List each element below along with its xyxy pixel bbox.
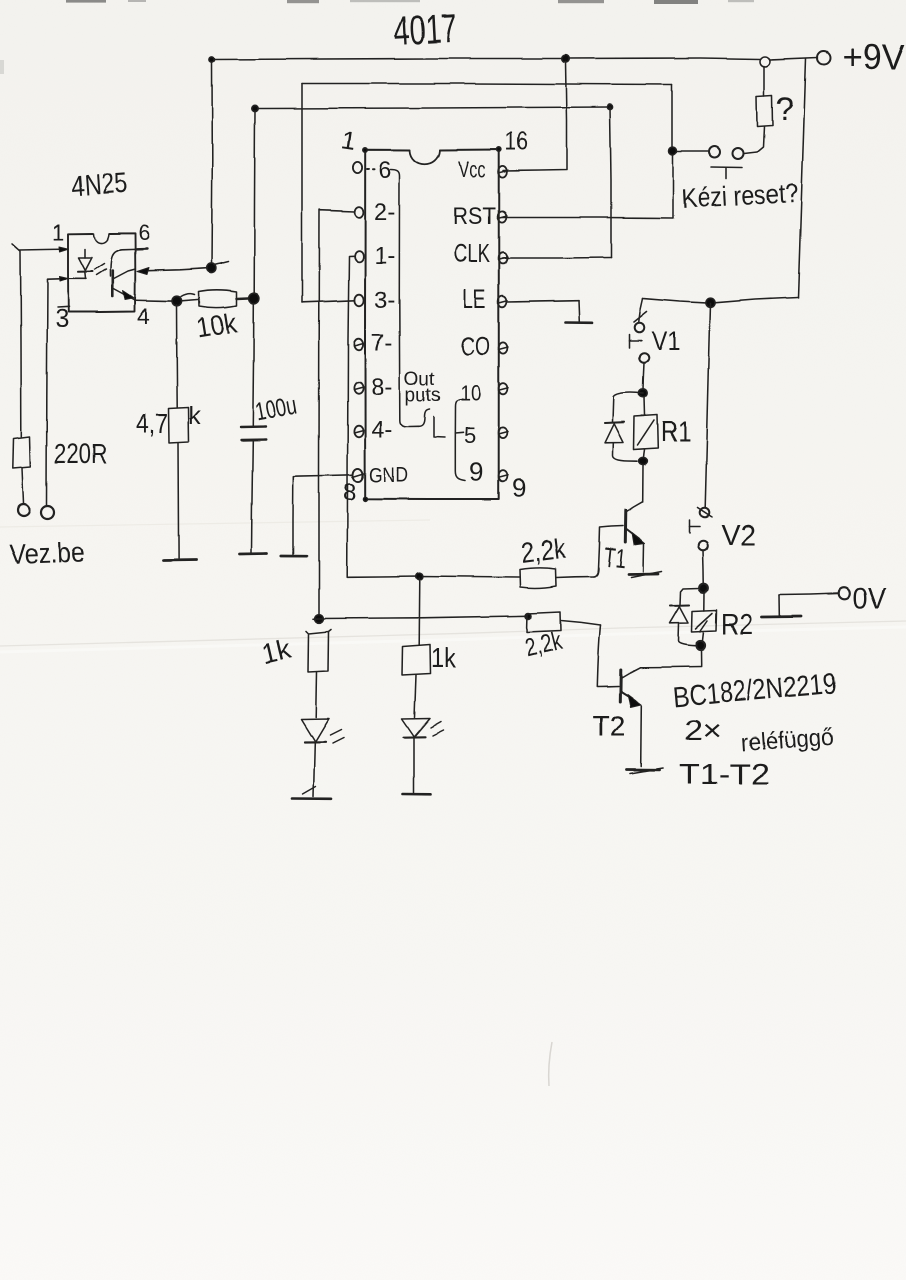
wire pin1 output column — [347, 256, 519, 580]
node relay R1 top — [639, 389, 647, 397]
wire clock node riser — [253, 111, 256, 293]
outputs bracket left — [391, 170, 446, 438]
svg-text:10: 10 — [460, 381, 481, 406]
wire 4,7k riser — [176, 305, 179, 408]
opto pin3 lead — [48, 277, 87, 308]
pin Vcc circle — [498, 166, 508, 177]
wire T2 base riser — [597, 625, 618, 687]
svg-text:R1: R1 — [661, 416, 691, 448]
resistor R4 220R — [13, 437, 31, 504]
svg-text:GND: GND — [369, 464, 408, 487]
wire LE to ground — [507, 300, 579, 301]
bracket pins 10-5-9 — [455, 400, 465, 481]
relay coil R1 — [634, 398, 658, 457]
svg-text:RST: RST — [453, 203, 496, 230]
svg-text:LE: LE — [462, 284, 486, 314]
ground at T2 — [627, 768, 664, 774]
wire +9V supply rail — [209, 57, 818, 62]
svg-text:?: ? — [776, 91, 794, 127]
opto phototransistor — [110, 249, 147, 300]
opto internal LED — [78, 249, 93, 279]
switch V2 — [689, 508, 712, 584]
wire pin3 to reset net — [302, 301, 355, 303]
svg-text:Vcc: Vcc — [458, 157, 485, 182]
resistor R8 2,2k lower — [527, 612, 601, 632]
node relay R1 bottom — [639, 457, 648, 502]
node relay R2 top — [699, 584, 708, 593]
svg-text:4N25: 4N25 — [70, 167, 128, 203]
pin CLK circle — [498, 252, 508, 263]
svg-text:4017: 4017 — [393, 7, 458, 54]
ground at LE — [566, 300, 593, 322]
pin 2 circle (out 2) — [355, 207, 364, 218]
paper crease middle — [0, 621, 906, 646]
pin 9 circle — [499, 471, 509, 482]
transistor T2 — [620, 667, 642, 766]
svg-text:8-: 8- — [371, 374, 392, 401]
ground at D2 — [403, 792, 431, 795]
scan artifacts top edge — [0, 0, 754, 74]
pin 1 circle (out 1) — [355, 251, 364, 262]
svg-text:V1: V1 — [652, 326, 680, 356]
svg-text:6: 6 — [138, 220, 150, 245]
svg-text:2-: 2- — [374, 199, 395, 226]
paper crease upper-left — [0, 520, 430, 527]
flyback diode of R2 — [670, 589, 700, 646]
wire opto pin3 drop — [47, 280, 48, 506]
pin CO circle — [499, 342, 509, 353]
flyback diode of R1 — [605, 393, 644, 462]
pin GND circle — [353, 468, 365, 481]
svg-text:3: 3 — [55, 305, 69, 333]
svg-text:V2: V2 — [721, 520, 756, 552]
wire T1 base riser — [594, 526, 623, 577]
pin LE circle — [498, 296, 508, 307]
svg-text:5: 5 — [464, 423, 476, 448]
svg-text:Vez.be: Vez.be — [9, 536, 85, 570]
svg-text:T1: T1 — [602, 542, 627, 574]
LED D2 — [402, 718, 444, 792]
switch V1 — [629, 299, 649, 391]
wire +9V left drop to opto collector — [207, 62, 228, 273]
wire pin2 output column — [319, 210, 355, 617]
resistor R5 1k — [306, 630, 331, 718]
node junction Vcc to rail — [562, 55, 570, 63]
pin 10 circle — [499, 383, 509, 394]
LED D1 — [302, 719, 344, 797]
resistor ? (reset pull) — [744, 66, 773, 154]
svg-text:9: 9 — [469, 457, 483, 487]
pin 3 circle (out 3) — [354, 295, 363, 307]
ground at D1 — [293, 787, 332, 799]
svg-text:16: 16 — [505, 128, 528, 156]
svg-text:Kézi reset?: Kézi reset? — [681, 178, 799, 214]
wire rail2 reset net (pin3 / RST / switch) — [302, 84, 672, 304]
relay coil R2 — [692, 593, 717, 641]
capacitor C1 100u — [241, 303, 266, 553]
IC U1 4017 body — [363, 147, 501, 501]
node tap for reset resistor — [760, 57, 770, 67]
svg-text:9: 9 — [512, 473, 526, 503]
ground at GND pin — [281, 555, 307, 558]
svg-text:6: 6 — [378, 157, 391, 184]
svg-text:1k: 1k — [431, 642, 457, 673]
svg-text:T1-T2: T1-T2 — [679, 759, 770, 791]
pin 6 circle (out 6) — [353, 162, 374, 173]
wire RST riser — [502, 147, 677, 218]
optocoupler U2 4N25 body — [68, 233, 135, 312]
svg-text:4-: 4- — [371, 416, 392, 443]
wire opto emitter to 10k — [135, 294, 198, 306]
opto light arrows — [95, 264, 107, 276]
svg-text:+9V: +9V — [842, 38, 906, 77]
svg-text:1-: 1- — [374, 243, 395, 270]
pin RST circle — [498, 211, 508, 222]
wire 1k2 riser from pin1 node — [418, 578, 421, 645]
wire relay feed distribution — [643, 298, 798, 308]
wire 220R drop (pin1 of opto) — [20, 251, 23, 437]
ground at 4,7k — [164, 559, 197, 562]
resistor R7 2,2k upper — [520, 568, 594, 588]
node pin2 column to 1k and 2,2k — [315, 614, 324, 623]
svg-text:puts: puts — [405, 385, 441, 406]
svg-text:k: k — [188, 402, 201, 430]
resistor 10k — [199, 290, 259, 308]
terminal +9V — [818, 52, 831, 65]
ground at 100u — [240, 552, 267, 555]
svg-text:0V: 0V — [853, 583, 887, 615]
pin 4 circle (out 4) — [354, 425, 364, 437]
resistor R6 1k — [402, 645, 431, 718]
svg-text:2×: 2× — [684, 715, 722, 747]
terminal input b — [41, 506, 54, 519]
switch Kézi reset — [677, 147, 744, 180]
wire GND pin — [293, 475, 353, 555]
svg-text:7-: 7- — [371, 330, 392, 357]
svg-text:220R: 220R — [54, 438, 107, 469]
terminal input a — [18, 505, 30, 517]
node relay R2 bottom — [696, 640, 705, 665]
pin 7 circle (out 7) — [354, 339, 364, 351]
transistor T1 — [625, 502, 644, 572]
wire Vcc to rail — [503, 62, 567, 171]
svg-text:2,2k: 2,2k — [519, 533, 568, 569]
svg-text:1: 1 — [52, 220, 64, 245]
opto pin1 lead — [13, 244, 69, 252]
wire R2 to T2 collector — [640, 666, 701, 669]
wire rail3 clock net — [252, 104, 613, 258]
terminal 0V with ground — [762, 588, 851, 617]
resistor R3 4,7k — [169, 408, 189, 559]
svg-text:R2: R2 — [721, 609, 753, 641]
svg-text:3-: 3- — [374, 287, 395, 314]
wire +9V drop to relay feed — [798, 59, 806, 298]
pin 8 circle (out 8) — [354, 382, 364, 394]
svg-text:4,7: 4,7 — [136, 408, 168, 439]
wire V2 column — [705, 304, 710, 508]
ground at T1 — [629, 572, 662, 578]
wire cross link to 2,2k lower — [313, 613, 532, 619]
pin 5 circle — [499, 427, 509, 438]
svg-text:10k: 10k — [194, 307, 240, 344]
faint mark bottom area — [549, 1042, 552, 1086]
svg-text:T2: T2 — [592, 711, 626, 743]
svg-text:CLK: CLK — [454, 238, 490, 268]
wire opto collector to node — [137, 268, 207, 275]
svg-text:CO: CO — [461, 331, 490, 361]
svg-text:8: 8 — [343, 479, 356, 506]
svg-text:4: 4 — [137, 303, 150, 329]
